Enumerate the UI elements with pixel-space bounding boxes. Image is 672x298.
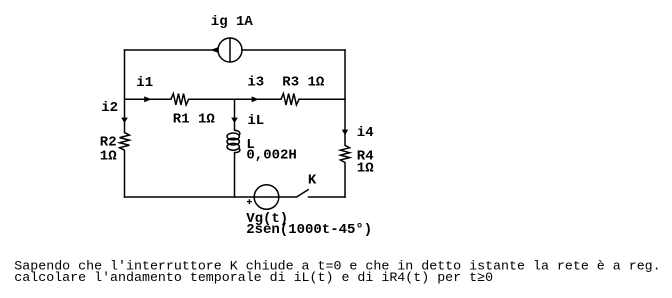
svg-text:calcolare l'andamento temporal: calcolare l'andamento temporale di iL(t)… [14, 270, 493, 285]
arrow i4 [342, 130, 348, 136]
arrow i1 [144, 96, 151, 102]
svg-text:i3: i3 [247, 75, 264, 91]
arrow i2 [121, 118, 128, 124]
wire top-right segment [242, 49, 345, 51]
wire middle horizontal left of R1 [125, 98, 171, 100]
svg-text:1Ω: 1Ω [357, 161, 374, 177]
wire inductor branch bottom [234, 153, 236, 197]
svg-text:i2: i2 [101, 100, 118, 116]
resistor R4 [340, 145, 349, 162]
svg-text:i4: i4 [357, 125, 374, 141]
wire right vertical below R4 [344, 163, 346, 198]
voltage source Vg circle [254, 185, 279, 210]
svg-text:1Ω: 1Ω [100, 148, 117, 164]
svg-text:K: K [308, 173, 317, 189]
wire middle horizontal R1 to R3 [189, 98, 281, 100]
arrow iL [231, 118, 238, 124]
current source U ig [218, 38, 242, 62]
svg-text:iL: iL [247, 113, 264, 129]
switch K blade [297, 189, 309, 197]
svg-text:0,002H: 0,002H [246, 147, 296, 163]
svg-text:ig 1A: ig 1A [211, 14, 254, 30]
svg-text:i1: i1 [136, 75, 153, 91]
plus sign of Vg [247, 199, 252, 204]
svg-text:R1 1Ω: R1 1Ω [173, 111, 216, 127]
arrow of ig (pointing left) [211, 47, 219, 53]
wire middle horizontal right of R3 [299, 98, 345, 100]
wire left vertical [124, 50, 126, 133]
wire right vertical [344, 50, 346, 145]
wire left vertical below R2 [124, 150, 126, 197]
wire inductor branch top [234, 99, 236, 130]
wire top-left segment [125, 49, 219, 51]
wire bottom left segment [125, 196, 297, 198]
inductor L coil [227, 130, 240, 152]
resistor R1 [171, 94, 189, 105]
svg-text:R3 1Ω: R3 1Ω [282, 75, 325, 91]
wire bottom right segment [309, 196, 345, 198]
resistor R2 [120, 133, 130, 151]
arrow i3 [252, 96, 259, 102]
resistor R3 [281, 94, 299, 105]
svg-text:2sen(1000t-45°): 2sen(1000t-45°) [246, 222, 372, 238]
